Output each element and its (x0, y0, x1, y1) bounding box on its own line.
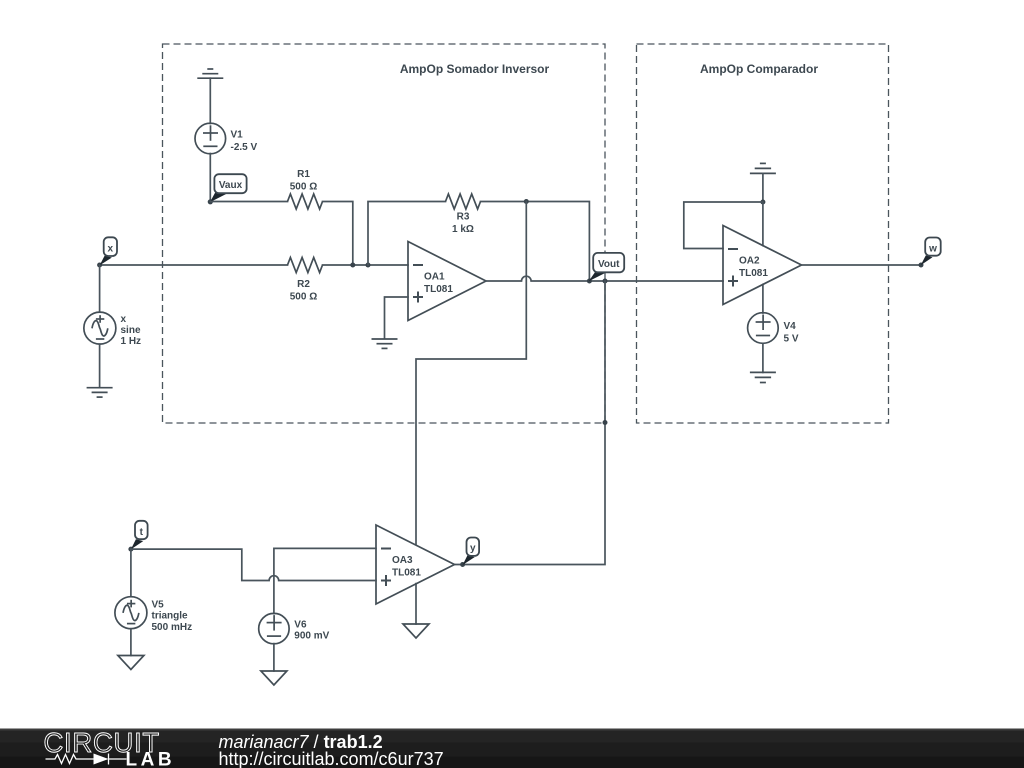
svg-text:-2.5 V: -2.5 V (231, 142, 258, 153)
svg-text:Vaux: Vaux (219, 180, 243, 191)
node R3 row junction (524, 199, 529, 204)
svg-text:LAB: LAB (126, 750, 176, 768)
node OA2 feedback (760, 200, 765, 205)
svg-text:TL081: TL081 (739, 268, 768, 279)
ground (above V1) (197, 69, 223, 78)
wire V4 to ground (762, 344, 764, 373)
dashed box AmpOp Comparador (637, 44, 889, 423)
voltage source V4 (748, 313, 779, 344)
wire OA2 bottom supply to V4 (762, 285, 764, 314)
svg-text:500 mHz: 500 mHz (152, 622, 193, 633)
svg-text:y: y (470, 543, 476, 554)
ground (OA1 plus input) (372, 339, 398, 348)
svg-text:OA2: OA2 (739, 256, 760, 267)
node y (460, 562, 465, 567)
svg-text:V1: V1 (231, 130, 244, 141)
flag Vout (589, 272, 606, 282)
svg-text:Vout: Vout (598, 259, 620, 270)
op-amp OA3 (376, 525, 455, 604)
svg-text:AmpOp Comparador: AmpOp Comparador (700, 62, 818, 76)
wire junction up to R3 row (368, 202, 446, 266)
svg-text:5 V: 5 V (784, 334, 799, 345)
wire t node to V5 (130, 549, 132, 597)
source V6 (259, 613, 289, 643)
flag x (100, 256, 112, 266)
wire OA1 plus input to ground (385, 297, 409, 339)
node Vaux (208, 199, 213, 204)
flag t (131, 539, 143, 549)
wire Vout down to OA3 output row (455, 281, 606, 565)
flag Vaux (210, 193, 227, 203)
wire x node down to source (99, 265, 101, 312)
node R2-R3 junction (366, 263, 371, 268)
wire ground to V1 (209, 78, 211, 123)
ground arrow (V6) (261, 671, 287, 685)
wire V5 to ground (130, 629, 132, 656)
ground (above OA2) (750, 163, 776, 173)
node R1-R2 junction (350, 263, 355, 268)
svg-text:x: x (121, 314, 127, 325)
wire V6 to ground (273, 644, 275, 671)
wire OA3 bottom supply to ground (415, 584, 417, 624)
resistor R1 (288, 194, 323, 209)
svg-text:V5: V5 (152, 600, 165, 611)
svg-text:TL081: TL081 (392, 568, 421, 579)
wire x source to ground (99, 344, 101, 388)
svg-text:1 kΩ: 1 kΩ (452, 224, 474, 235)
svg-text:TL081: TL081 (424, 284, 453, 295)
node Vout branch (603, 279, 608, 284)
flag w (921, 255, 933, 265)
node x (97, 263, 102, 268)
voltage source V1 (195, 123, 226, 154)
resistor R3 (446, 194, 481, 209)
wire ground to feedback node (762, 173, 764, 202)
svg-text:500 Ω: 500 Ω (290, 182, 317, 193)
svg-text:OA3: OA3 (392, 555, 413, 566)
svg-text:900 mV: 900 mV (294, 631, 329, 642)
svg-text:w: w (928, 244, 937, 255)
wire t to OA3 plus input with hop (131, 549, 376, 580)
svg-text:1 Hz: 1 Hz (121, 336, 142, 347)
node w (919, 263, 924, 268)
node t (128, 547, 133, 552)
svg-text:V6: V6 (294, 620, 307, 631)
source x sine (84, 312, 116, 344)
svg-text:R1: R1 (297, 169, 310, 180)
wire R2 to OA1 minus input (323, 264, 409, 266)
op-amp OA1 (408, 242, 486, 321)
ground arrow (V5) (118, 656, 144, 670)
svg-text:R2: R2 (297, 279, 310, 290)
svg-text:500 Ω: 500 Ω (290, 292, 317, 303)
wire R3 node down to OA3 supply (416, 202, 526, 544)
wire feedback loop to OA2 minus input (684, 202, 763, 249)
logo squiggle resistor-diode (46, 754, 127, 765)
svg-text:V4: V4 (784, 321, 797, 332)
wire OA2 output to w (802, 264, 922, 266)
source V5 triangle (115, 597, 147, 629)
dashed box AmpOp Somador Inversor (163, 44, 606, 423)
ground (below x source) (87, 388, 113, 397)
ground (below V4) (750, 372, 776, 382)
footer bar (0, 729, 1024, 768)
svg-text:sine: sine (121, 325, 141, 336)
wire R3 to Vout column (481, 202, 590, 282)
wire OA1 output to OA2 plus input with hop (486, 276, 723, 281)
svg-text:R3: R3 (457, 212, 470, 223)
svg-text:OA1: OA1 (424, 272, 445, 283)
node Vout tail (587, 279, 592, 284)
wire x node to R2 (100, 264, 288, 266)
wire R1 right (323, 202, 353, 266)
svg-text:triangle: triangle (152, 611, 189, 622)
ground arrow (OA3) (403, 624, 429, 638)
svg-text:x: x (108, 244, 114, 255)
op-amp OA2 (723, 226, 802, 305)
node at box corner (603, 420, 608, 425)
resistor R2 (288, 258, 323, 273)
wire node to OA2 top supply (762, 202, 764, 246)
flag y (463, 555, 475, 565)
svg-text:AmpOp Somador Inversor: AmpOp Somador Inversor (400, 62, 550, 76)
wire V6 to OA3 minus input (274, 548, 376, 613)
svg-text:http://circuitlab.com/c6ur737: http://circuitlab.com/c6ur737 (219, 749, 444, 768)
wire V1 to Vaux node (209, 154, 211, 202)
wire Vaux to R1 (210, 201, 287, 203)
